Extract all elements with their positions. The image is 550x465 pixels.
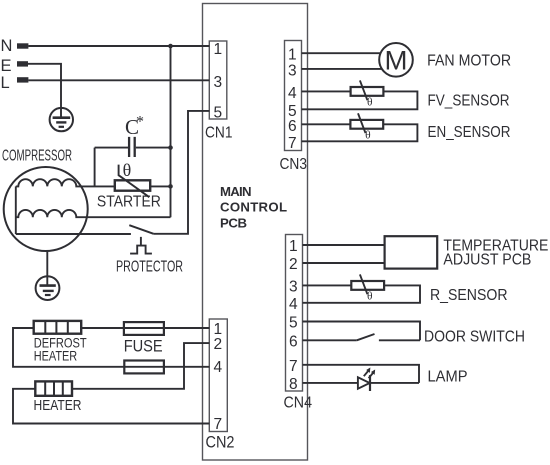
node: capacitor junction	[168, 145, 173, 150]
svg-text:7: 7	[288, 135, 297, 152]
svg-text:DOOR SWITCH: DOOR SWITCH	[424, 329, 525, 346]
connector CN2	[209, 319, 227, 432]
protector thermal element	[130, 237, 152, 254]
starter strike line	[119, 165, 150, 198]
wire: compressor case to earth	[46, 251, 48, 286]
wire: protector to CN1 pin 5	[154, 111, 210, 234]
svg-text:R_SENSOR: R_SENSOR	[430, 287, 508, 304]
wire: compressor common rail to protector	[16, 233, 131, 235]
starter PTC body	[115, 180, 150, 190]
wire: CN4 pin 5 to door switch	[303, 322, 421, 341]
door switch blade	[357, 334, 375, 340]
svg-text:HEATER: HEATER	[34, 398, 82, 414]
svg-text:EN_SENSOR: EN_SENSOR	[428, 124, 511, 141]
terminal N pad	[17, 43, 28, 48]
wire: EN sensor loop to CN3 pin 7	[302, 124, 418, 141]
wire: capacitor to main vertical	[136, 147, 171, 149]
wire E to earth	[28, 64, 61, 117]
wire: CN4 pin 6 to door switch contact	[303, 339, 357, 341]
wire: door switch right segment	[379, 339, 420, 341]
terminal L pad	[17, 77, 28, 82]
temperature adjust PCB board	[385, 236, 438, 268]
wire: CN4 pin 2 to temperature adjust PCB	[303, 262, 385, 264]
svg-text:ADJUST PCB: ADJUST PCB	[443, 252, 531, 269]
wire: FV sensor loop to CN3 pin 5	[302, 91, 418, 109]
lamp LED symbol	[358, 368, 375, 391]
svg-text:θ: θ	[367, 97, 373, 109]
svg-text:L: L	[1, 74, 10, 92]
svg-text:FV_SENSOR: FV_SENSOR	[428, 93, 510, 110]
svg-text:CN4: CN4	[284, 395, 313, 412]
wire: CN3 pin 3 to fan motor	[302, 68, 382, 70]
FV sensor thermistor	[351, 80, 384, 108]
wire: CN3 pin 4 to FV sensor	[302, 90, 351, 92]
svg-text:M: M	[385, 46, 408, 76]
svg-text:CN1: CN1	[205, 125, 233, 142]
capacitor C* value label	[125, 114, 144, 140]
svg-text:θ: θ	[367, 291, 373, 303]
wire: capacitor branch left	[95, 148, 128, 187]
main control PCB outline	[203, 4, 308, 461]
wire: defrost heater left to fuse 2 line (CN2 pin 4)	[13, 328, 209, 367]
wire: lamp to loop right	[370, 382, 419, 384]
wire: compressor left rail	[15, 186, 17, 234]
wire: R sensor loop to CN4 pin 4	[303, 285, 421, 302]
svg-text:PROTECTOR: PROTECTOR	[116, 259, 183, 276]
svg-text:6: 6	[288, 118, 297, 135]
protector switch blade	[129, 225, 153, 234]
wire: CN3 pin 6 to EN sensor	[302, 123, 351, 125]
wire: CN3 pin 1 to fan motor	[302, 52, 381, 54]
wire: CN2 pin 2 to heater	[72, 343, 209, 389]
node: N line junction	[168, 44, 173, 49]
svg-text:N: N	[1, 37, 13, 55]
svg-text:5: 5	[289, 315, 298, 332]
svg-text:θ: θ	[123, 160, 132, 180]
svg-text:COMPRESSOR: COMPRESSOR	[2, 147, 72, 164]
svg-text:2: 2	[289, 256, 298, 273]
svg-text:θ: θ	[365, 130, 371, 142]
DEFROST HEATER label	[34, 335, 87, 364]
svg-text:PCB: PCB	[220, 215, 247, 230]
svg-text:3: 3	[214, 74, 223, 91]
wire: CN4 pin 3 to R sensor	[303, 284, 352, 286]
wire: main vertical from N junction down	[170, 46, 172, 217]
svg-text:*: *	[136, 114, 144, 131]
svg-text:1: 1	[289, 238, 298, 255]
svg-text:6: 6	[289, 334, 298, 351]
svg-text:7: 7	[214, 416, 223, 433]
svg-text:5: 5	[214, 104, 223, 121]
svg-text:FUSE: FUSE	[124, 337, 163, 355]
svg-text:CONTROL: CONTROL	[220, 200, 287, 215]
compressor motor circle	[4, 167, 88, 251]
R sensor thermistor	[351, 274, 384, 302]
EN sensor thermistor	[350, 113, 383, 141]
svg-text:1: 1	[288, 47, 297, 64]
svg-text:CN2: CN2	[206, 432, 235, 451]
svg-text:FAN MOTOR: FAN MOTOR	[427, 53, 511, 70]
compressor winding (start)	[16, 179, 115, 186]
ground (earth symbol near terminals)	[50, 108, 73, 131]
node: starter junction	[168, 184, 173, 189]
svg-text:STARTER: STARTER	[97, 194, 161, 211]
svg-text:HEATER: HEATER	[34, 347, 77, 363]
svg-text:E: E	[1, 57, 12, 75]
wire N to CN1 pin 1	[28, 45, 209, 47]
fuse F2 body	[124, 361, 164, 374]
terminal E pad	[17, 61, 28, 66]
svg-text:CN3: CN3	[280, 156, 308, 173]
svg-text:LAMP: LAMP	[428, 368, 468, 385]
svg-text:8: 8	[289, 376, 298, 393]
fan motor M1	[379, 43, 413, 77]
svg-text:4: 4	[288, 85, 297, 102]
TEMPERATURE ADJUST PCB label	[443, 237, 548, 268]
svg-text:7: 7	[289, 358, 298, 375]
wire: CN4 pin 8 to lamp	[303, 382, 358, 384]
svg-text:4: 4	[289, 296, 298, 313]
svg-text:3: 3	[289, 279, 298, 296]
connector CN4	[286, 235, 303, 392]
MAIN CONTROL PCB label	[220, 184, 287, 230]
connector CN1	[209, 41, 227, 119]
ground (earth symbol under compressor)	[36, 276, 60, 300]
compressor winding (run)	[16, 210, 171, 217]
svg-text:MAIN: MAIN	[220, 184, 252, 199]
connector CN3	[285, 41, 302, 151]
wire: CN4 pin 7 to lamp loop	[303, 365, 420, 383]
wire: CN4 pin 1 to temperature adjust PCB	[303, 244, 385, 246]
capacitor C* plates	[129, 137, 135, 157]
wire: defrost heater through fuse to CN2 pin 1	[81, 327, 209, 329]
wire: heater to CN2 pin 7	[13, 389, 209, 424]
defrost heater body	[34, 321, 81, 334]
svg-text:3: 3	[288, 62, 297, 79]
svg-text:4: 4	[214, 359, 223, 376]
svg-text:1: 1	[214, 41, 223, 58]
svg-text:2: 2	[214, 336, 223, 353]
fuse F1 body	[124, 322, 164, 335]
wire: starter to main vertical	[150, 185, 170, 187]
heater body	[35, 381, 72, 395]
wire L to CN1 pin 3	[28, 79, 209, 81]
